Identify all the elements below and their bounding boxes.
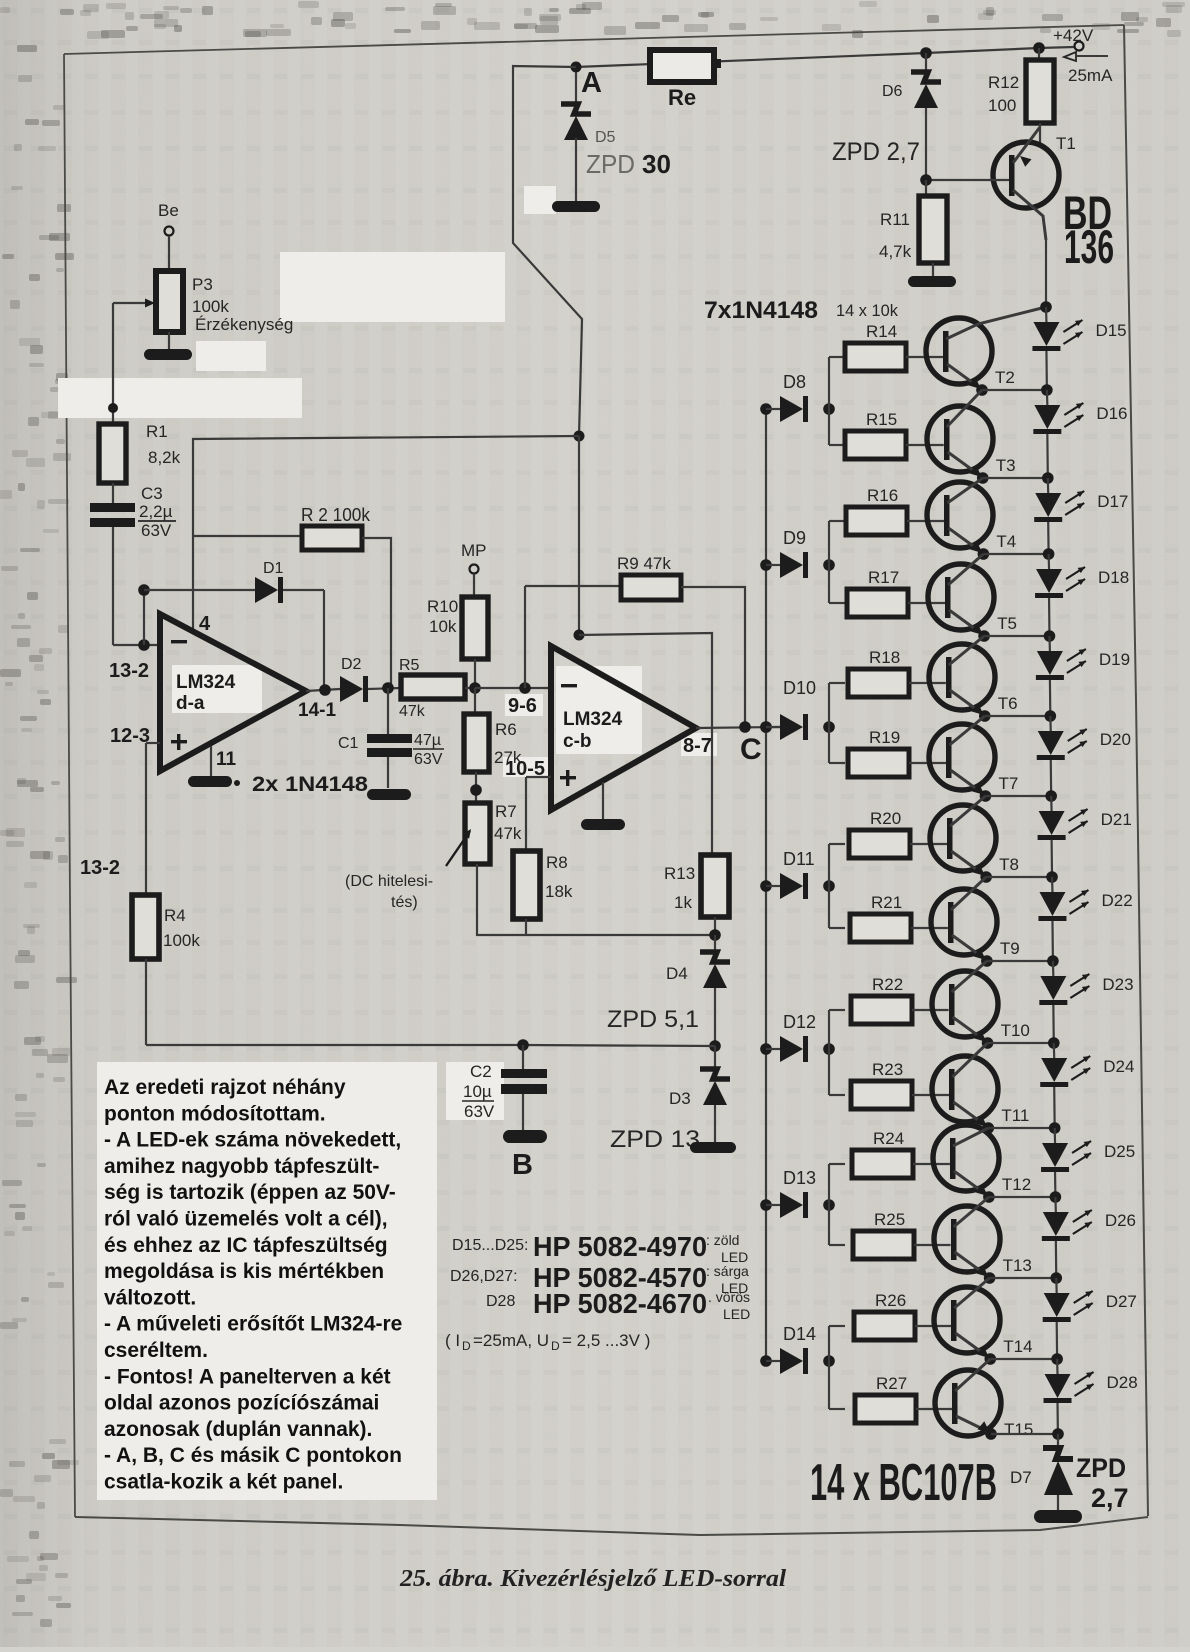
LED D27 [1043, 1272, 1137, 1359]
svg-text:T6: T6 [998, 694, 1018, 713]
wire emitter T2 to LED chain [976, 384, 1047, 396]
svg-text:18k: 18k [545, 882, 573, 901]
transistor T3 BC107B (NPN) [927, 390, 1016, 477]
zener diode D3 ZPD 13 [610, 1046, 730, 1153]
svg-text:R18: R18 [869, 648, 900, 667]
svg-text:+42V: +42V [1053, 26, 1094, 45]
svg-text:D8: D8 [783, 372, 806, 392]
svg-text:R6: R6 [495, 720, 517, 739]
wire emitter T7 to LED chain [980, 790, 1051, 802]
wire node A to rail junction [513, 66, 582, 436]
svg-text:=25mA, U: =25mA, U [473, 1331, 549, 1350]
transistor T8 BC107B (NPN) [930, 796, 1019, 876]
transistor T5 BC107B (NPN) [928, 554, 1017, 635]
wire emitter T8 to LED chain [980, 871, 1052, 883]
svg-text:D3: D3 [669, 1089, 691, 1108]
svg-text:25mA: 25mA [1068, 66, 1113, 85]
label 7x1N4148 [704, 297, 818, 324]
svg-text:9-6: 9-6 [508, 695, 537, 717]
svg-text:(DC hitelesi-: (DC hitelesi- [345, 873, 433, 890]
transistor T9 BC107B (NPN) [931, 877, 1020, 960]
wire 9-6 input [525, 586, 621, 688]
svg-text:LED: LED [723, 1306, 750, 1322]
transistor T11 BC107B (NPN) [932, 1043, 1029, 1127]
svg-text:D28: D28 [486, 1293, 515, 1310]
svg-text:- Fontos! A panelterven a két: - Fontos! A panelterven a két [104, 1365, 391, 1388]
node 12-3 non-inverting input [110, 725, 160, 895]
svg-text:T13: T13 [1003, 1256, 1032, 1275]
svg-text:- A, B, C és másik C pontokon: - A, B, C és másik C pontokon [104, 1444, 402, 1467]
transistor T1 BD136 (PNP) [926, 127, 1114, 273]
svg-text:47k: 47k [494, 824, 522, 843]
modification notes text block [104, 1076, 402, 1494]
svg-text:14 x BC107B: 14 x BC107B [810, 1454, 997, 1512]
terminal MP [461, 541, 487, 597]
wire top rail from node A to +42V [576, 47, 1074, 67]
transistor T6 BC107B (NPN) [929, 636, 1018, 715]
svg-text:C1: C1 [338, 735, 359, 752]
LED D19 [1036, 630, 1130, 716]
svg-text:: zöld: : zöld [706, 1232, 739, 1248]
label 14x10k [836, 301, 898, 320]
capacitor C2 10u 63V [462, 1039, 547, 1130]
terminal Be [158, 201, 179, 271]
zener diode D5 ZPD 30 [561, 72, 671, 201]
svg-text:8-7: 8-7 [683, 735, 712, 757]
wire V+ rail to R13 [574, 436, 713, 855]
svg-text:: sárga: : sárga [706, 1263, 749, 1279]
svg-text:- A műveleti erősítőt LM324-re: - A műveleti erősítőt LM324-re [104, 1313, 402, 1336]
svg-text:D19: D19 [1099, 650, 1130, 669]
svg-text:D9: D9 [783, 528, 806, 548]
wire emitter T4 to LED chain [978, 548, 1049, 560]
svg-text:8,2k: 8,2k [148, 448, 181, 467]
wire 10-5 input [526, 776, 551, 778]
svg-text:R 2 100k: R 2 100k [301, 505, 371, 525]
op-amp U2 LM324 c-b [505, 646, 712, 810]
resistor R24 10k [852, 1129, 950, 1178]
resistor R5 47k [382, 657, 475, 720]
svg-text:D: D [551, 1339, 560, 1353]
zener diode D6 ZPD 2,7 [832, 47, 941, 180]
svg-text:D: D [462, 1339, 471, 1353]
svg-text:T4: T4 [996, 532, 1016, 551]
svg-text:ról való üzemelés volt a cél),: ról való üzemelés volt a cél), [104, 1208, 388, 1231]
svg-text:amihez nagyobb tápfeszült-: amihez nagyobb tápfeszült- [104, 1155, 379, 1178]
svg-text:= 2,5 ...3V ): = 2,5 ...3V ) [562, 1331, 650, 1350]
svg-text:4: 4 [199, 613, 211, 635]
resistor R26 10k [854, 1291, 951, 1340]
svg-text:R12: R12 [988, 73, 1019, 92]
resistor R17 10k [847, 568, 945, 617]
svg-text:azonosak (duplán vannak).: azonosak (duplán vannak). [104, 1418, 372, 1441]
svg-text:R4: R4 [164, 906, 186, 925]
svg-text:136: 136 [1064, 220, 1114, 273]
svg-text:csatla-kozik a két panel.: csatla-kozik a két panel. [104, 1471, 343, 1494]
diode D9 [760, 528, 835, 578]
svg-text:13-2: 13-2 [109, 660, 149, 682]
svg-text:R27: R27 [876, 1374, 907, 1393]
svg-text:D24: D24 [1103, 1057, 1134, 1076]
svg-text:D15...D25:: D15...D25: [452, 1237, 528, 1254]
svg-text:100: 100 [988, 96, 1016, 115]
wire rail V+ down to R2 and op-amp pin 4 [193, 431, 585, 631]
wire P3 wiper down to R1 [108, 303, 118, 424]
svg-text:D5: D5 [595, 129, 616, 146]
svg-text:47µ: 47µ [414, 732, 441, 749]
svg-text:D10: D10 [783, 678, 816, 698]
ground below P3 [144, 349, 192, 360]
svg-text:. vörös: . vörös [708, 1289, 750, 1305]
svg-text:változott.: változott. [104, 1286, 196, 1309]
diode D12 [760, 1012, 835, 1062]
transistor T15 BC107B (NPN) [935, 1359, 1033, 1439]
resistor R1 8,2k [99, 422, 181, 503]
LED type list HP 5082 [445, 1231, 750, 1353]
zener diode D4 ZPD 5,1 [607, 935, 730, 1046]
resistor R21 10k [850, 893, 948, 942]
node 13-2 [109, 639, 150, 682]
LED D23 [1039, 955, 1133, 1043]
resistor R19 10k [848, 728, 946, 777]
node junction R5 R10 R6 9-6 wire [469, 682, 551, 694]
svg-text:D1: D1 [263, 560, 284, 577]
svg-text:HP 5082-4970: HP 5082-4970 [533, 1231, 707, 1262]
wire D9 to resistor pair [829, 521, 845, 603]
resistor R18 10k [848, 648, 946, 697]
svg-text:D18: D18 [1098, 568, 1129, 587]
wire emitter T15 to LED chain [985, 1428, 1058, 1440]
svg-text:T11: T11 [1001, 1106, 1029, 1125]
wire emitter T11 to LED chain [983, 1122, 1055, 1134]
LED D26 [1042, 1191, 1136, 1278]
op-amp U2 output wire to node C [696, 721, 781, 766]
svg-text:25. ábra. Kivezérlésjelző L: 25. ábra. Kivezérlésjelző LED-sorral [399, 1566, 786, 1592]
svg-text:Be: Be [158, 201, 179, 220]
wire 13-2 up to D1 [138, 584, 255, 645]
svg-text:Érzékenység: Érzékenység [195, 315, 293, 334]
resistor Re [650, 50, 721, 110]
svg-text:R19: R19 [869, 728, 900, 747]
svg-text:R5: R5 [399, 657, 420, 674]
ground below C1 [367, 789, 411, 800]
svg-text:- A LED-ek száma növekedett,: - A LED-ek száma növekedett, [104, 1129, 401, 1152]
svg-text:R10: R10 [427, 597, 458, 616]
node D4 D3 [709, 1040, 721, 1052]
wire D12 to resistor pair [829, 1010, 845, 1095]
svg-text:12-3: 12-3 [110, 725, 150, 747]
resistor R12 100 [988, 42, 1054, 143]
transistor T13 BC107B (NPN) [934, 1197, 1032, 1277]
svg-text:D7: D7 [1010, 1468, 1032, 1487]
LED D15 [1032, 301, 1126, 390]
white correction patches [58, 186, 717, 1500]
svg-text:ZPD 5,1: ZPD 5,1 [607, 1006, 699, 1033]
svg-text:10k: 10k [429, 617, 457, 636]
svg-text:D26: D26 [1105, 1211, 1136, 1230]
svg-text:T12: T12 [1002, 1175, 1031, 1194]
svg-text:R25: R25 [874, 1210, 905, 1229]
svg-text:R17: R17 [868, 568, 899, 587]
svg-text:D4: D4 [666, 964, 688, 983]
svg-text:( I: ( I [445, 1331, 460, 1350]
svg-text:D20: D20 [1100, 730, 1131, 749]
svg-text:ZPD 2,7: ZPD 2,7 [832, 138, 920, 166]
wire D8 to resistor pair [829, 357, 845, 445]
svg-text:D13: D13 [783, 1168, 816, 1188]
svg-text:2,2µ: 2,2µ [139, 502, 173, 521]
svg-text:47k: 47k [399, 703, 426, 720]
svg-text:R21: R21 [871, 893, 902, 912]
LED D17 [1034, 472, 1128, 554]
svg-text:C3: C3 [141, 484, 163, 503]
svg-text:R13: R13 [664, 864, 695, 883]
svg-text:4,7k: 4,7k [879, 242, 912, 261]
svg-text:oldal azonos pozícíószámai: oldal azonos pozícíószámai [104, 1392, 379, 1415]
resistor R22 10k [851, 975, 949, 1024]
ground below C2 node B [503, 1130, 547, 1181]
svg-text:R26: R26 [875, 1291, 906, 1310]
diode D8 [760, 372, 835, 422]
svg-text:R7: R7 [495, 802, 517, 821]
ground below R11 [908, 276, 956, 287]
resistor R8 18k [513, 777, 573, 935]
svg-text:7x1N4148: 7x1N4148 [704, 297, 818, 324]
svg-text:T10: T10 [1001, 1021, 1030, 1040]
svg-text:R22: R22 [872, 975, 903, 994]
resistor R10 10k [427, 597, 488, 688]
svg-text:R20: R20 [870, 809, 901, 828]
svg-text:R24: R24 [873, 1129, 904, 1148]
svg-text:C2: C2 [470, 1062, 492, 1081]
pin 11 ground of op-amp U1 [188, 746, 368, 796]
svg-text:és ehhez az IC tápfeszültség: és ehhez az IC tápfeszültség [104, 1234, 388, 1257]
svg-text:2,7: 2,7 [1091, 1483, 1129, 1513]
svg-text:D23: D23 [1102, 975, 1133, 994]
resistor R4 100k [80, 857, 200, 1045]
svg-text:B: B [512, 1149, 533, 1181]
resistor R16 10k [846, 486, 944, 535]
LED D21 [1038, 790, 1132, 877]
svg-text:megoldása is kis mértékben: megoldása is kis mértékben [104, 1260, 384, 1283]
node R13 D4 [709, 929, 721, 941]
svg-text:ZPD 13: ZPD 13 [610, 1126, 700, 1153]
resistor R9 47k feedback [617, 554, 745, 727]
svg-text:D28: D28 [1107, 1373, 1138, 1392]
wire T1 collector down to LED chain top [1045, 240, 1047, 307]
svg-text:2x 1N4148: 2x 1N4148 [252, 773, 368, 796]
wire emitter T3 to LED chain [977, 472, 1048, 484]
svg-text:T5: T5 [997, 614, 1017, 633]
svg-text:14 x 10k: 14 x 10k [836, 301, 898, 320]
svg-text:Re: Re [668, 85, 696, 110]
svg-text:Az eredeti rajzot néhány: Az eredeti rajzot néhány [104, 1076, 346, 1099]
diode D1 [255, 560, 324, 689]
wire emitter T12 to LED chain [983, 1191, 1055, 1203]
transistor T4 BC107B (NPN) [927, 478, 1016, 553]
svg-text:D17: D17 [1097, 492, 1128, 511]
svg-text:30: 30 [642, 149, 671, 179]
svg-text:D16: D16 [1096, 404, 1127, 423]
ground below D7 [1034, 1510, 1082, 1523]
resistor R15 10k [845, 410, 944, 459]
transistor T10 BC107B (NPN) [932, 961, 1030, 1042]
ground below D5 [552, 201, 600, 212]
LED D16 [1033, 384, 1127, 478]
svg-text:T15: T15 [1004, 1420, 1033, 1439]
zener diode D7 ZPD 2,7 [1010, 1434, 1129, 1513]
svg-text:MP: MP [461, 541, 487, 560]
svg-text:D15: D15 [1095, 321, 1126, 340]
svg-text:LM324: LM324 [176, 672, 236, 693]
svg-text:R16: R16 [867, 486, 898, 505]
svg-text:11: 11 [216, 749, 237, 770]
wire D14 to resistor pair [829, 1326, 845, 1409]
resistor R20 10k [849, 809, 947, 858]
svg-text:T9: T9 [1000, 939, 1020, 958]
terminal +42V [1053, 26, 1113, 85]
diode bus vertical wire [765, 409, 767, 1361]
svg-text:1k: 1k [674, 893, 692, 912]
wire emitter T10 to LED chain [982, 1037, 1054, 1049]
svg-text:T2: T2 [995, 368, 1015, 387]
svg-text:C: C [740, 733, 762, 766]
svg-text:ponton módosítottam.: ponton módosítottam. [104, 1102, 326, 1125]
label 14xBC107B [810, 1454, 997, 1512]
wire D11 to resistor pair [829, 844, 845, 928]
diode D10 [760, 678, 835, 740]
wire emitter T9 to LED chain [981, 955, 1053, 967]
svg-text:R8: R8 [546, 853, 568, 872]
transistor T14 BC107B (NPN) [934, 1278, 1033, 1358]
LED D22 [1038, 871, 1132, 961]
diode D13 [760, 1168, 835, 1218]
svg-text:D27: D27 [1106, 1292, 1137, 1311]
resistor R11 4,7k [879, 174, 947, 276]
node A [571, 62, 603, 100]
node bottom of LED chain [1052, 1428, 1064, 1440]
transistor T12 BC107B (NPN) [933, 1125, 1031, 1196]
wire emitter T5 to LED chain [978, 630, 1049, 642]
transistor T7 BC107B (NPN) [929, 716, 1018, 795]
svg-text:R14: R14 [866, 322, 897, 341]
LED D25 [1041, 1122, 1135, 1197]
bottom rail wire R4 to D3 node [146, 1045, 715, 1046]
svg-text:R11: R11 [880, 210, 910, 229]
wire emitter T6 to LED chain [979, 710, 1050, 722]
svg-text:63V: 63V [414, 751, 443, 768]
capacitor C1 47u 63V [338, 688, 444, 788]
svg-text:T14: T14 [1003, 1337, 1032, 1356]
trimmer R7 47k DC calibration [345, 802, 715, 935]
svg-text:c-b: c-b [563, 731, 592, 752]
svg-text:D14: D14 [783, 1324, 816, 1344]
svg-text:T7: T7 [998, 774, 1018, 793]
wire D10 to resistor pair [829, 683, 845, 763]
svg-text:LM324: LM324 [563, 709, 623, 730]
svg-text:63V: 63V [141, 521, 172, 540]
svg-text:d-a: d-a [176, 693, 205, 714]
resistor R23 10k [851, 1060, 949, 1109]
transistor T2 BC107B (NPN) [926, 307, 1046, 389]
svg-text:T1: T1 [1056, 134, 1076, 153]
svg-text:63V: 63V [464, 1102, 495, 1121]
resistor R13 1k [664, 855, 729, 935]
LED D28 [1044, 1353, 1138, 1434]
wire C3 to inverting input 13-2 [113, 527, 160, 645]
svg-text:D21: D21 [1101, 810, 1132, 829]
svg-text:D22: D22 [1101, 891, 1132, 910]
diode D14 [760, 1324, 835, 1374]
resistor R27 10k [855, 1374, 952, 1423]
svg-text:13-2: 13-2 [80, 857, 120, 879]
LED D24 [1040, 1037, 1134, 1128]
resistor R2 100k [301, 505, 391, 688]
svg-text:D12: D12 [783, 1012, 816, 1032]
svg-text:100k: 100k [192, 297, 229, 316]
op-amp U1 LM324 d-a [160, 613, 336, 771]
svg-text:T8: T8 [999, 855, 1019, 874]
capacitor C3 2,2u 63V [90, 484, 176, 540]
svg-text:cseréltem.: cseréltem. [104, 1339, 208, 1362]
svg-text:D11: D11 [783, 849, 815, 869]
svg-text:10µ: 10µ [463, 1082, 492, 1101]
LED D20 [1037, 710, 1131, 796]
svg-text:ség is tartozik (éppen az 50V-: ség is tartozik (éppen az 50V- [104, 1181, 396, 1204]
pin ground of op-amp U2 [581, 782, 625, 830]
wire emitter T14 to LED chain [984, 1353, 1057, 1365]
svg-text:D25: D25 [1104, 1142, 1135, 1161]
resistor R6 27k [464, 688, 522, 803]
resistor R14 10k [845, 322, 943, 371]
svg-text:HP 5082-4670: HP 5082-4670 [533, 1288, 707, 1319]
svg-text:R23: R23 [872, 1060, 903, 1079]
svg-text:P3: P3 [192, 275, 213, 294]
resistor R25 10k [853, 1210, 951, 1259]
LED D18 [1035, 548, 1129, 636]
svg-text:D26,D27:: D26,D27: [450, 1268, 518, 1285]
svg-text:tés): tés) [391, 894, 418, 911]
ground below D3 [690, 1142, 736, 1153]
svg-text:T3: T3 [996, 456, 1016, 475]
wire D13 to resistor pair [829, 1164, 845, 1245]
figure caption [399, 1566, 786, 1592]
diode D2 [306, 656, 401, 702]
svg-text:R9 47k: R9 47k [617, 554, 671, 573]
svg-text:D2: D2 [341, 656, 362, 673]
svg-text:ZPD: ZPD [586, 149, 635, 179]
svg-text:14-1: 14-1 [298, 700, 336, 721]
svg-text:A: A [581, 67, 602, 99]
svg-text:R15: R15 [866, 410, 897, 429]
potentiometer P3 100k Erzekenyseg [113, 271, 293, 349]
wire emitter T13 to LED chain [984, 1272, 1056, 1284]
svg-text:ZPD: ZPD [1076, 1453, 1126, 1483]
svg-text:R1: R1 [146, 422, 168, 441]
svg-text:100k: 100k [163, 931, 200, 950]
svg-text:D6: D6 [882, 83, 903, 100]
diode D11 [760, 849, 835, 899]
